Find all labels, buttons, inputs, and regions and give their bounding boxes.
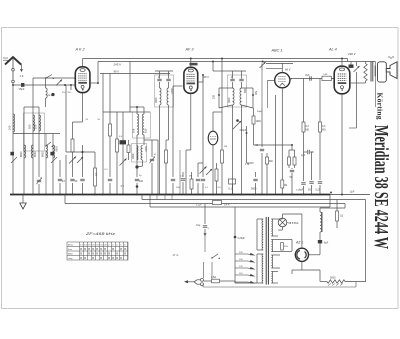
speaker cone — [386, 62, 397, 79]
svg-text:x: x — [96, 247, 98, 251]
wire AK2 plate right — [90, 82, 98, 84]
triode section ABC1 small tube — [208, 131, 218, 145]
resistor field zigzag — [364, 64, 367, 82]
wire x180 — [179, 150, 181, 195]
resistor R7 200 — [218, 94, 220, 96]
switch wiper S3 — [77, 157, 83, 163]
horizontal link y133 — [13, 133, 60, 135]
coil L6 6600 — [46, 145, 48, 158]
svg-text:A K 2: A K 2 — [75, 48, 86, 52]
capacitor C22 1muF — [307, 150, 309, 154]
svg-text:0099: 0099 — [54, 146, 57, 152]
svg-text:1,4Ω: 1,4Ω — [323, 74, 328, 76]
wire ABC1 bottom — [281, 88, 283, 108]
capacitor 15pF — [21, 83, 24, 87]
svg-text:.01μ: .01μ — [196, 224, 201, 227]
svg-text:x: x — [92, 256, 94, 260]
wire choke top — [320, 207, 345, 209]
coil L7 104 — [136, 107, 138, 114]
capacitor C15 2muF — [230, 78, 234, 80]
svg-text:x: x — [112, 256, 114, 260]
capacitor C31 8muF block — [318, 240, 322, 243]
wire rail A drop to AL4 — [347, 59, 349, 62]
wire antenna down — [12, 85, 14, 195]
wire transformer leads left — [257, 218, 263, 220]
svg-text:0,25μF: 0,25μF — [238, 237, 246, 240]
svg-text:Meridian 38 SE 4244 W: Meridian 38 SE 4244 W — [370, 125, 392, 249]
wire T2 feed — [213, 70, 228, 72]
svg-text:x: x — [88, 252, 90, 256]
wire AL4 top — [341, 59, 343, 67]
svg-text:MΩ: MΩ — [322, 130, 326, 132]
capacitor C12 — [166, 78, 170, 80]
svg-text:x: x — [84, 256, 86, 260]
wire AL4 cathode down — [341, 94, 343, 195]
trimmer capacitor C4 — [37, 179, 41, 181]
svg-text:x: x — [124, 252, 126, 256]
switch S6 — [206, 169, 212, 175]
coil L1 100 — [13, 114, 15, 132]
table header text — [68, 245, 127, 261]
wire node x39 — [38, 107, 40, 177]
wire T1 primary down — [159, 105, 161, 195]
svg-text:Körting: Körting — [375, 93, 384, 120]
svg-text:2μF: 2μF — [350, 191, 355, 194]
wire node x24 — [23, 107, 25, 195]
svg-text:8μF: 8μF — [299, 189, 304, 192]
wire x205 chain — [204, 204, 206, 225]
resistor R3 — [109, 124, 112, 136]
wire T1 top — [159, 75, 161, 79]
wire x33 drop — [32, 78, 34, 107]
resistor R19 5000 — [327, 280, 345, 283]
trim arrow near rail — [260, 62, 266, 68]
capacitor C11 2muF — [157, 78, 161, 80]
resistor R13 — [281, 180, 284, 188]
antenna — [5, 57, 21, 65]
switch wiper S0b — [56, 80, 62, 86]
MW band label box — [120, 140, 127, 144]
iron core slug mid — [50, 152, 54, 156]
svg-text:86 V: 86 V — [285, 68, 291, 72]
triode ABC1 — [275, 73, 290, 88]
svg-text:L 5A: L 5A — [211, 276, 216, 279]
svg-text:MΩ: MΩ — [269, 161, 273, 163]
band switch S0 — [45, 77, 46, 78]
wire transformer leads right — [271, 218, 278, 220]
svg-text:x: x — [92, 247, 94, 251]
chassis ground symbol — [22, 196, 24, 204]
voltage selector taps — [235, 253, 248, 255]
capacitor C21 50 — [291, 168, 293, 169]
capacitor C6 10 — [70, 178, 74, 180]
capacitor C16 — [239, 78, 243, 80]
coil box outline — [24, 113, 45, 151]
resistor R4b — [127, 145, 130, 153]
svg-text:3 V: 3 V — [121, 186, 125, 188]
svg-text:x: x — [112, 247, 114, 251]
table x marks — [80, 247, 126, 260]
iron core slug left — [10, 152, 14, 156]
svg-text:6600: 6600 — [42, 151, 45, 157]
coil T1 primary — [159, 82, 161, 88]
svg-text:x: x — [108, 252, 110, 256]
wire AF3 bottom — [190, 93, 192, 150]
capacitor C30 0,25muF — [234, 236, 237, 239]
resistor R1a — [281, 243, 284, 251]
svg-text:5000: 5000 — [330, 277, 336, 280]
wire T2 secondary down — [241, 105, 243, 195]
wire x320 down — [319, 152, 321, 180]
pentode AF3 — [184, 67, 198, 93]
svg-text:6800: 6800 — [20, 151, 23, 157]
svg-text:x: x — [100, 252, 102, 256]
output transformer T3 core — [370, 62, 372, 82]
horizontal y107 mid — [130, 106, 144, 108]
capacitor C24 8muF grid — [309, 76, 311, 80]
svg-text:610: 610 — [144, 128, 148, 133]
resistor R9 1M — [221, 112, 223, 150]
svg-text:17 m: 17 m — [173, 253, 179, 257]
svg-text:x: x — [116, 256, 118, 260]
coil L10 0010 — [141, 145, 143, 159]
part label above AF3 — [190, 63, 198, 66]
wire AZ1 cathode right — [309, 254, 321, 256]
svg-text:Kurz: Kurz — [68, 248, 72, 251]
resistor R5 — [165, 140, 167, 150]
coupling coil ca 1muF — [45, 78, 47, 88]
padder trimmer C10 — [150, 158, 154, 160]
capacitor C28 0,1muF block — [213, 201, 222, 205]
svg-text:x: x — [100, 256, 102, 260]
svg-text:20↗: 20↗ — [68, 91, 72, 94]
wire AZ1 anode feeds — [284, 239, 292, 241]
svg-text:x: x — [120, 256, 122, 260]
capacitor C7 — [80, 178, 84, 180]
resistor R4 — [116, 139, 119, 152]
wire return y203 — [65, 203, 345, 205]
oscillator coil box 2 — [132, 144, 147, 163]
svg-text:98 V: 98 V — [114, 70, 120, 74]
svg-text:x: x — [100, 247, 102, 251]
wire T2 left resistor — [219, 87, 233, 89]
svg-text:1M: 1M — [284, 185, 287, 187]
svg-text:0,1: 0,1 — [95, 172, 98, 176]
svg-text:Skala: Skala — [68, 245, 74, 247]
capacitor C25 0,25 — [318, 181, 322, 183]
svg-text:x: x — [104, 252, 106, 256]
coil L4 6500 — [31, 145, 33, 158]
wire x262 chain — [261, 108, 263, 147]
capacitor pair C13b — [182, 172, 184, 177]
svg-text:Mittel: Mittel — [68, 253, 74, 256]
power transformer secondary HT upper — [271, 219, 272, 236]
capacitor C18 0,1 — [229, 179, 236, 184]
svg-text:x: x — [96, 252, 98, 256]
coil L5 100 — [39, 115, 41, 131]
wire node x72 grid chain — [72, 122, 74, 139]
wire x173 AF3 grid — [172, 86, 174, 120]
resistor R18 1ohm — [336, 200, 338, 212]
wire x275 — [275, 95, 277, 195]
capacitor C25b — [309, 181, 313, 183]
wire node x53 — [52, 134, 54, 195]
wire rail y78 — [33, 77, 75, 79]
wire bottom y287 — [203, 286, 356, 288]
power transformer primary upper — [262, 219, 263, 250]
switch wiper S4 — [120, 159, 127, 166]
wire ABC1 left — [268, 79, 275, 81]
resistor R11 box — [252, 116, 255, 124]
power transformer primary lower — [262, 254, 263, 283]
svg-text:0029: 0029 — [132, 153, 135, 159]
capacitor C9 100 — [135, 178, 139, 180]
wire AK2 left — [70, 85, 72, 90]
switch S5 — [200, 167, 207, 174]
wire AF3 plate — [198, 81, 204, 83]
junction blob — [135, 165, 138, 168]
output transformer secondary — [373, 66, 376, 76]
wire AZ1 top — [301, 214, 303, 248]
wire T2 primary down — [232, 105, 234, 116]
wire AL4 screen — [350, 82, 357, 84]
mains switch — [211, 257, 212, 258]
svg-text:x: x — [120, 247, 122, 251]
fuse L5A — [212, 279, 220, 283]
svg-text:ca.1μF: ca.1μF — [48, 95, 56, 97]
power transformer secondary rect fil — [271, 240, 272, 252]
svg-text:0,1μF: 0,1μF — [196, 205, 202, 207]
capacitor C17 — [197, 163, 199, 177]
wire L8 down — [143, 135, 145, 145]
svg-text:x: x — [104, 247, 106, 251]
svg-text:0010: 0010 — [144, 146, 147, 152]
wire y145 link — [247, 162, 254, 164]
resistor R14 pair — [288, 157, 291, 165]
junction x82 — [82, 151, 84, 153]
mains arrow — [184, 280, 188, 283]
power transformer T4 core — [265, 217, 267, 285]
resistor R12 — [267, 80, 269, 108]
pilot lamp — [278, 218, 287, 227]
wire AF3 top cap — [190, 59, 192, 68]
svg-text:245 V: 245 V — [113, 63, 123, 67]
coil L8 610 — [143, 107, 145, 114]
wire y152 link — [66, 151, 95, 153]
resistor R1 — [71, 139, 74, 152]
svg-text:AF 3: AF 3 — [185, 48, 195, 52]
svg-text:x: x — [116, 252, 118, 256]
coil T2 secondary — [241, 82, 243, 88]
svg-text:ABC 1: ABC 1 — [271, 49, 283, 53]
svg-text:200: 200 — [213, 94, 216, 99]
capacitor C19 5000 — [253, 178, 257, 180]
wire AL4 grid left — [333, 78, 335, 80]
svg-text:ZF=468 kHz: ZF=468 kHz — [85, 232, 116, 236]
wire node x158 — [157, 140, 159, 195]
resistor R8 500 — [252, 94, 254, 96]
wire small tube leads — [212, 112, 214, 131]
capacitor C14 — [201, 178, 205, 180]
wire rail 98V — [100, 73, 170, 75]
wire return y207 — [150, 206, 330, 208]
svg-text:290 V: 290 V — [347, 52, 357, 56]
coil L9 0029 — [137, 145, 139, 159]
coil L2 6800 — [24, 145, 26, 158]
coil L3 160 — [33, 115, 35, 131]
wire AK2 top cap — [82, 59, 84, 67]
resistor R10 — [215, 169, 218, 181]
speaker magnet — [378, 62, 387, 82]
coil T1 secondary — [168, 82, 170, 88]
power transformer secondary heater — [271, 255, 272, 268]
svg-text:AL 4: AL 4 — [328, 48, 337, 52]
resistor R15 pair — [293, 157, 296, 165]
svg-text:0020: 0020 — [155, 97, 158, 103]
svg-text:x: x — [124, 247, 126, 251]
IF transformer T2 box — [228, 75, 247, 107]
resistor R17 0,3M — [319, 79, 321, 123]
coil T2 primary — [232, 82, 234, 88]
wire node x66 from AK2 — [65, 85, 67, 152]
svg-text:100: 100 — [139, 180, 144, 183]
wire x203 drop — [202, 75, 204, 150]
svg-text:x: x — [88, 247, 90, 251]
capacitor C20 50pF — [260, 148, 264, 150]
wire screen drop — [356, 83, 358, 128]
wire antenna to AK2 — [12, 84, 14, 86]
svg-text:2M: 2M — [224, 146, 227, 148]
filter choke — [319, 208, 321, 212]
wire mains to transformer — [204, 280, 209, 282]
svg-text:x: x — [80, 256, 82, 260]
IF transformer T1 box — [155, 75, 174, 107]
svg-text:5000: 5000 — [251, 188, 257, 191]
wire drops below bus — [156, 195, 158, 200]
wire AZ1 bottom — [301, 261, 303, 270]
wire x345 drop — [344, 204, 346, 208]
speaker squiggle — [388, 57, 394, 59]
svg-text:1 M: 1 M — [245, 163, 249, 166]
wire grid AK2 — [73, 121, 83, 123]
wire right x365 — [365, 200, 367, 283]
svg-text:6500: 6500 — [34, 151, 37, 157]
wire speaker return drop — [375, 62, 377, 108]
svg-text:x: x — [108, 256, 110, 260]
svg-text:x: x — [84, 247, 86, 251]
wire rail B — [98, 61, 376, 63]
wire x232 down — [232, 116, 234, 195]
wire mains risers — [204, 233, 206, 252]
svg-text:8μF: 8μF — [324, 242, 329, 245]
svg-text:1,6: 1,6 — [20, 74, 24, 78]
ground bus — [10, 194, 330, 196]
capacitor C8 — [108, 178, 112, 180]
wire x311 mid — [311, 152, 313, 180]
capacitor C27 2muF — [330, 192, 332, 194]
power transformer secondary dial — [271, 272, 272, 283]
svg-text:100: 100 — [34, 124, 38, 129]
rectifier AZ1 — [295, 248, 308, 261]
tone trimmer arrow — [354, 66, 360, 72]
svg-text:0020: 0020 — [228, 97, 231, 103]
wire ABC1 right — [290, 79, 292, 80]
svg-text:20↗: 20↗ — [62, 91, 66, 94]
horizontal link y107 — [24, 106, 39, 108]
wire node x33 — [32, 107, 34, 195]
capacitor C5 13 — [59, 160, 61, 177]
band switch S1 — [45, 145, 46, 146]
capacitor C26 block — [349, 65, 354, 68]
svg-text:15pF: 15pF — [19, 87, 25, 91]
alignment table — [67, 242, 128, 260]
mains plug — [201, 278, 204, 281]
wire return y199 — [142, 199, 366, 201]
svg-text:500: 500 — [254, 91, 257, 96]
wire x282 down — [281, 108, 283, 180]
svg-text:x: x — [80, 247, 82, 251]
wire bottom return — [302, 269, 320, 271]
svg-text:0010: 0010 — [170, 88, 173, 94]
svg-text:104: 104 — [132, 128, 136, 133]
svg-text:0051: 0051 — [243, 88, 246, 94]
svg-text:0,4 A: 0,4 A — [224, 204, 230, 207]
svg-text:1Ω: 1Ω — [340, 215, 343, 218]
horizontal y140 — [144, 139, 158, 141]
svg-text:46 V: 46 V — [204, 75, 210, 79]
wire T2 top — [232, 71, 234, 79]
volume potentiometer — [233, 121, 241, 129]
wire ABC1 top — [281, 63, 283, 72]
pentode AK2 — [75, 67, 90, 93]
resistor R16 0,3M — [303, 79, 305, 123]
capacitor C29 — [203, 225, 207, 227]
wire T1 sec to AF3 — [168, 105, 170, 140]
arrow 1,6 A — [21, 64, 23, 70]
wire L7 down — [136, 135, 138, 177]
svg-text:160: 160 — [28, 124, 32, 129]
resistor pair R6 — [190, 179, 193, 189]
svg-text:100: 100 — [8, 125, 12, 130]
coil L6b — [53, 145, 55, 158]
frame-edge mark — [3, 57, 8, 59]
resistor R2 0,1M — [94, 152, 96, 168]
output pentode AL4 — [334, 66, 350, 94]
svg-text:MΩ: MΩ — [306, 130, 310, 132]
svg-text:x: x — [92, 252, 94, 256]
wire drops from rails — [102, 74, 104, 195]
svg-text:8μF: 8μF — [306, 75, 311, 77]
switch wiper S2 — [69, 157, 76, 164]
wire x235 mains riser — [234, 207, 236, 283]
svg-text:1M: 1M — [189, 176, 192, 178]
wire rail 245V — [83, 58, 348, 60]
svg-text:200μF: 200μF — [240, 129, 247, 132]
horizontal y112 — [103, 111, 150, 113]
svg-text:1MΩ: 1MΩ — [256, 120, 261, 123]
capacitor C23 8muF — [303, 152, 305, 181]
svg-text:x: x — [80, 252, 82, 256]
grid feed wire AL4 — [289, 78, 334, 80]
wire x330 drop — [329, 195, 331, 208]
oscillator coil box — [133, 112, 151, 138]
svg-text:50pF: 50pF — [257, 111, 263, 113]
capacitor C13 — [172, 120, 174, 177]
resistor R17a box — [322, 76, 331, 80]
